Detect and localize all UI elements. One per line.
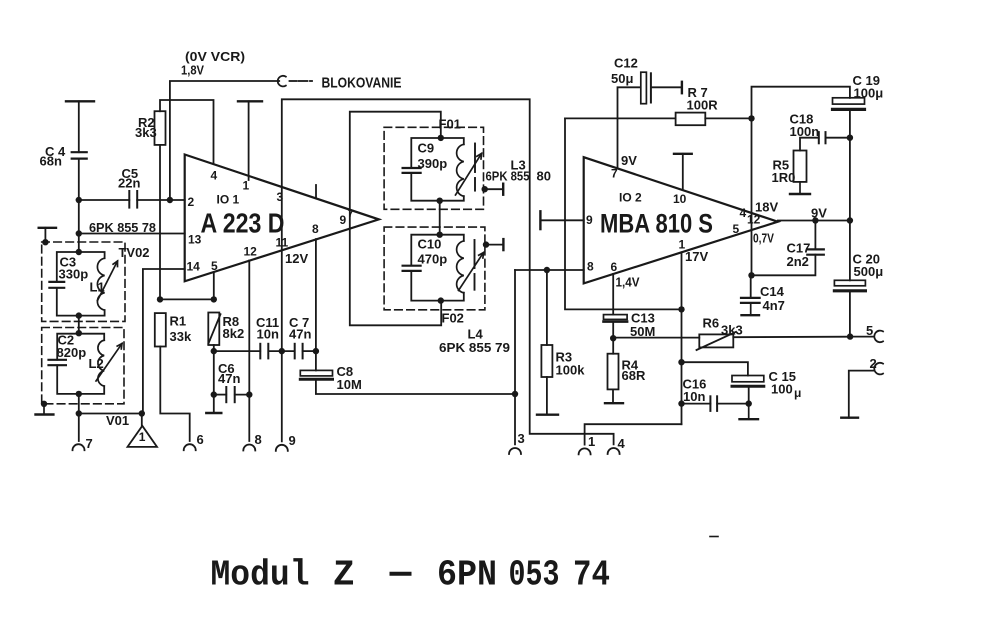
- capacitor C4: [72, 152, 87, 158]
- wire R1/R8 link: [160, 298, 214, 300]
- node bottom rail C20: [847, 333, 853, 339]
- label 0,7V: [753, 231, 774, 246]
- svg-text:1: 1: [588, 434, 595, 449]
- terminal T-bar under R5: [790, 182, 810, 194]
- label 1: [588, 434, 595, 449]
- wire F01-F02 link: [439, 201, 441, 235]
- svg-text:V01: V01: [106, 413, 129, 428]
- wire C15 bottom: [748, 387, 750, 403]
- svg-text:R6: R6: [703, 316, 720, 331]
- label C10: [418, 237, 448, 267]
- svg-text:68n: 68n: [40, 154, 62, 169]
- label 8: [255, 432, 262, 447]
- node L4 tap: [483, 241, 489, 247]
- node C7 right / C8 top: [313, 348, 319, 354]
- svg-text:10: 10: [673, 192, 687, 206]
- node C15/C16 top: [678, 359, 684, 365]
- capacitor C17: [807, 249, 824, 254]
- svg-text:22n: 22n: [118, 176, 140, 191]
- svg-text:50μ: 50μ: [611, 71, 633, 86]
- wire pin 3 and top rail: [282, 99, 614, 444]
- label 1,8V: [181, 63, 204, 78]
- svg-text:47n: 47n: [289, 327, 311, 342]
- label 3: [518, 431, 525, 446]
- label R2: [135, 115, 157, 140]
- node V01 row left: [76, 410, 82, 416]
- label L3: [511, 158, 526, 173]
- terminal 4: [608, 448, 620, 454]
- node 9V C17: [812, 217, 818, 223]
- label F01: [439, 117, 461, 132]
- terminal T-bar under C14: [742, 303, 760, 315]
- capacitor C2: [49, 360, 66, 365]
- node C10 top: [437, 232, 443, 238]
- pin 13 label: [188, 233, 202, 247]
- svg-text:9: 9: [289, 433, 296, 448]
- node dashed corner bottom-left: [41, 401, 47, 407]
- node C18 junction: [847, 135, 853, 141]
- label 1 in V01: [139, 430, 146, 444]
- core bar L3: [474, 144, 476, 191]
- terminal T-bar bottom-left: [36, 404, 54, 415]
- wire to V01: [79, 413, 142, 415]
- svg-text:100n: 100n: [790, 124, 820, 139]
- label R4: [622, 358, 646, 384]
- label 7: [86, 436, 93, 451]
- pin 1 label: [243, 179, 250, 193]
- label 18V: [755, 200, 778, 215]
- svg-text:1: 1: [139, 430, 146, 444]
- pin 11 label: [276, 236, 289, 250]
- wire C6 row: [214, 394, 250, 396]
- tank loop 2 outline: [57, 334, 104, 394]
- node C7 left: [279, 348, 285, 354]
- svg-text:C12: C12: [614, 56, 638, 71]
- capacitor C3: [49, 282, 64, 288]
- label R8: [223, 314, 245, 341]
- wire terminal 5: [850, 336, 873, 338]
- terminal 2: [874, 363, 883, 375]
- inductor L3: [457, 144, 464, 196]
- svg-text:6PK 855 79: 6PK 855 79: [439, 340, 510, 355]
- node C11 left: [211, 348, 217, 354]
- node on dashed corner: [42, 239, 48, 245]
- wire terminal 2: [849, 371, 874, 418]
- terminal T-bar top-left of TV02: [39, 228, 56, 242]
- svg-text:3k3: 3k3: [721, 323, 743, 338]
- capacitor C20: [834, 280, 865, 291]
- svg-text:2: 2: [870, 356, 877, 371]
- label C5: [118, 166, 140, 191]
- svg-text:470p: 470p: [418, 252, 448, 267]
- label MBA 810 S: [600, 209, 713, 239]
- svg-text:Modul: Modul: [211, 555, 310, 596]
- svg-text:BLOKOVANIE: BLOKOVANIE: [322, 75, 402, 92]
- wire between tanks: [78, 316, 80, 334]
- label IO 2: [619, 191, 642, 205]
- capacitor C15: [732, 376, 764, 387]
- terminal 7: [73, 444, 85, 450]
- tank loop C9/L3: [411, 138, 464, 201]
- svg-text:R1: R1: [170, 314, 187, 329]
- wire C8 bottom: [316, 381, 515, 394]
- svg-text:3k3: 3k3: [135, 125, 157, 140]
- svg-text:IO 1: IO 1: [217, 193, 240, 207]
- node C8 wire junction: [512, 391, 518, 397]
- label C2: [57, 333, 87, 361]
- svg-text:8: 8: [587, 260, 594, 274]
- label 17V: [685, 249, 708, 264]
- pin 7 label: [348, 208, 354, 220]
- speck above caption: [710, 536, 718, 538]
- label C20: [853, 252, 884, 280]
- label C15: [769, 369, 802, 400]
- svg-text:5: 5: [866, 323, 873, 338]
- node junction C5/C4: [76, 197, 82, 203]
- wire pin 6 / C13: [612, 274, 614, 354]
- label 6PK 855 78: [89, 220, 156, 235]
- pin 2 label: [188, 195, 195, 209]
- svg-text:1,8V: 1,8V: [181, 63, 204, 78]
- pin 6 label: [611, 260, 618, 274]
- terminal T-bar under R8: [206, 412, 221, 414]
- terminal 6: [184, 444, 196, 450]
- arrow variable L1: [98, 261, 118, 301]
- label (0V VCR): [185, 49, 245, 64]
- label C19: [853, 73, 884, 101]
- resistor R3: [541, 345, 552, 377]
- label R5: [772, 158, 796, 186]
- wire 9V row: [778, 220, 850, 222]
- node 9V C19 column: [847, 217, 853, 223]
- svg-text:100μ: 100μ: [854, 86, 884, 101]
- label BLOKOVANIE: [322, 75, 402, 92]
- svg-text:500μ: 500μ: [854, 264, 884, 279]
- svg-text:F01: F01: [439, 117, 461, 132]
- svg-text:8k2: 8k2: [223, 326, 245, 341]
- wire C11 row: [214, 350, 316, 352]
- label C9: [418, 141, 448, 172]
- capacitor C19: [833, 98, 865, 110]
- label C14: [760, 284, 785, 313]
- node C6 right: [246, 391, 252, 397]
- terminal T-bar ground right: [841, 417, 858, 419]
- node C13/R4/R6: [610, 335, 616, 341]
- terminal T-bar pin 9: [540, 211, 583, 229]
- svg-text:10M: 10M: [337, 377, 362, 392]
- label C17: [787, 241, 811, 270]
- svg-text:5: 5: [733, 222, 740, 236]
- node junction pin2/1.8V: [167, 197, 173, 203]
- terminal 5: [874, 331, 883, 343]
- resistor R6: [699, 334, 733, 347]
- wire C14 lead: [750, 275, 752, 298]
- label L2: [89, 356, 104, 371]
- stub above triangle: [315, 185, 317, 198]
- wire terminal 1 riser: [585, 424, 682, 444]
- resistor R3 leads: [546, 270, 548, 414]
- svg-text:053: 053: [509, 555, 560, 596]
- wire terminal 7: [78, 414, 80, 442]
- capacitor C6: [226, 387, 234, 402]
- svg-text:C10: C10: [418, 237, 442, 252]
- wire T2 column (pin 12): [248, 260, 250, 441]
- wire R1 to terminal 6: [160, 347, 189, 442]
- label 6: [197, 432, 204, 447]
- svg-text:4: 4: [618, 436, 626, 451]
- pin 8 label: [587, 260, 594, 274]
- caption Modul Z - 6PN 053 74: [211, 555, 611, 596]
- label C3: [59, 255, 89, 282]
- label R7: [687, 85, 719, 113]
- resistor R8: [208, 313, 219, 346]
- svg-text:A 223 D: A 223 D: [201, 208, 285, 239]
- wire tank2 to ground row: [78, 394, 80, 414]
- node C16 left: [678, 400, 684, 406]
- svg-text:6PK 855 78: 6PK 855 78: [89, 220, 156, 235]
- dashed box TV02 lower: [42, 328, 124, 404]
- capacitor C5: [129, 191, 137, 208]
- wire 6PK 855 78 net (pin 13): [79, 233, 185, 235]
- svg-text:330p: 330p: [59, 267, 89, 282]
- svg-text:6: 6: [611, 260, 618, 274]
- label L1: [90, 280, 105, 295]
- svg-text:6: 6: [197, 432, 204, 447]
- pin 4 label: [211, 169, 218, 183]
- label C12: [611, 56, 638, 87]
- node C9 bottom: [437, 198, 443, 204]
- dashed box F02: [384, 227, 485, 310]
- resistor R2: [155, 111, 166, 145]
- pin 12 label: [747, 213, 761, 227]
- svg-text:9V: 9V: [811, 206, 827, 221]
- svg-text:18V: 18V: [755, 200, 778, 215]
- svg-text:6PK 855: 6PK 855: [486, 169, 530, 184]
- label L4: [468, 327, 484, 342]
- svg-text:(0V VCR): (0V VCR): [185, 49, 245, 64]
- terminal T-bar pin 1 top: [238, 101, 262, 180]
- slash R8: [208, 314, 220, 344]
- dashed box F01: [384, 127, 483, 209]
- terminal T-bar C12 right: [681, 82, 683, 93]
- label 2: [870, 356, 877, 371]
- svg-text:390p: 390p: [418, 156, 448, 171]
- svg-text:17V: 17V: [685, 249, 708, 264]
- wire L3 tap: [485, 188, 504, 190]
- svg-text:12: 12: [244, 245, 258, 259]
- wire R6 row: [616, 336, 851, 339]
- terminal T-bar under R3: [537, 414, 558, 416]
- pin 8 label: [312, 222, 319, 236]
- node pin1 column junction: [678, 306, 684, 312]
- terminal 8: [243, 445, 255, 451]
- svg-text:6PN: 6PN: [437, 555, 497, 596]
- node R7 right: [748, 115, 754, 121]
- svg-text:7: 7: [86, 436, 93, 451]
- svg-text:4: 4: [211, 169, 218, 183]
- wire C8 top lead: [315, 351, 317, 370]
- svg-text:L2: L2: [89, 356, 104, 371]
- pin 3 label: [277, 190, 284, 204]
- label 5: [866, 323, 873, 338]
- terminal T-bar under C15: [740, 404, 759, 420]
- label C16: [683, 377, 707, 405]
- terminal 9: [276, 445, 288, 451]
- wire C4 column down: [78, 159, 80, 252]
- arrow variable L2: [96, 344, 122, 382]
- capacitor C11: [260, 344, 268, 359]
- wire C5 left: [79, 199, 130, 201]
- svg-text:4n7: 4n7: [763, 298, 785, 313]
- label 9V pin7: [621, 153, 637, 168]
- node C16 right: [746, 400, 752, 406]
- wire pin 5: [213, 272, 215, 299]
- node C6 left: [211, 391, 217, 397]
- svg-text:3: 3: [518, 431, 525, 446]
- terminal T-bar above C4: [66, 101, 94, 152]
- label 6PK 855 79: [439, 340, 510, 355]
- terminal T-bar L4 tap: [502, 239, 504, 250]
- label 9: [289, 433, 296, 448]
- label F02: [442, 311, 464, 326]
- svg-text:13: 13: [188, 233, 202, 247]
- svg-text:0,7V: 0,7V: [753, 231, 774, 246]
- svg-text:9: 9: [340, 213, 347, 227]
- terminal T-bar under R4: [605, 389, 623, 403]
- label C11: [256, 315, 279, 342]
- svg-text:MBA 810 S: MBA 810 S: [600, 209, 713, 239]
- terminal 3: [509, 448, 521, 454]
- svg-text:2: 2: [188, 195, 195, 209]
- wire pin8 row to MBA: [515, 269, 584, 271]
- svg-text:74: 74: [573, 555, 610, 596]
- svg-text:9: 9: [586, 213, 593, 227]
- wire R2 top to pin 4: [160, 100, 214, 164]
- wire pin 7 / C12: [618, 87, 682, 168]
- node tank1 bottom: [76, 312, 82, 318]
- capacitor C14: [741, 298, 760, 303]
- node tank1 top: [76, 249, 82, 255]
- node R1 top: [157, 296, 163, 302]
- terminal T-bar L3 tap: [502, 184, 504, 195]
- varicap V01 triangle: [128, 414, 158, 447]
- label R6: [703, 316, 743, 338]
- tank loop 1 outline: [57, 252, 105, 316]
- svg-text:100k: 100k: [556, 363, 586, 378]
- label 9V: [811, 206, 827, 221]
- capacitor C13: [604, 315, 628, 322]
- node tank2 top: [76, 330, 82, 336]
- slash R6: [697, 332, 737, 350]
- node tank2 bottom: [76, 391, 82, 397]
- label TV02: [119, 245, 150, 260]
- node C10 bottom: [438, 297, 444, 303]
- wire feedback loop: [350, 112, 441, 326]
- pin 1 label: [679, 238, 686, 252]
- svg-text:8: 8: [255, 432, 262, 447]
- node V01: [139, 410, 145, 416]
- wire terminal 3 column: [514, 270, 516, 444]
- terminal 1: [579, 448, 591, 454]
- capacitor C18: [819, 132, 826, 143]
- svg-text:4: 4: [740, 206, 747, 220]
- label 6PK 855 80: [486, 169, 551, 184]
- resistor R4: [608, 354, 619, 390]
- pin 5 label: [733, 222, 740, 236]
- svg-text:33k: 33k: [170, 329, 192, 344]
- svg-text:14: 14: [187, 260, 201, 274]
- capacitor C7: [295, 344, 303, 359]
- svg-text:5: 5: [211, 259, 218, 273]
- wire apex crossing (R7 node down): [751, 118, 753, 275]
- label C6: [218, 361, 240, 386]
- label 4: [618, 436, 626, 451]
- pin 7 label: [611, 167, 618, 181]
- dashed box TV02 upper: [42, 242, 125, 321]
- svg-text:68R: 68R: [622, 368, 646, 383]
- svg-text:10n: 10n: [683, 389, 705, 404]
- wire 1.8V feed: [170, 81, 279, 200]
- node R8 top: [211, 296, 217, 302]
- inductor L4: [457, 241, 464, 293]
- node junction 6PK wire: [76, 230, 82, 236]
- arrow variable L3: [456, 154, 482, 196]
- svg-text:C14: C14: [760, 284, 785, 299]
- pin 9 label: [340, 213, 347, 227]
- wire C17 top: [814, 221, 816, 250]
- pin 12 label: [244, 245, 258, 259]
- pin 10 label: [673, 192, 687, 206]
- svg-text:μ: μ: [794, 386, 801, 400]
- pin 4 label: [740, 206, 747, 220]
- svg-text:820p: 820p: [57, 345, 87, 360]
- label C8: [337, 364, 362, 392]
- terminal T-bar pin 10: [674, 154, 692, 190]
- capacitor C9: [403, 168, 421, 173]
- wire pin 14: [143, 269, 185, 414]
- wire C15 top: [682, 362, 748, 375]
- svg-text:F02: F02: [442, 311, 464, 326]
- op-amp IO1 A 223 D triangle: [185, 155, 379, 282]
- svg-text:100R: 100R: [687, 98, 719, 113]
- wire C19 bottom column: [849, 111, 851, 280]
- op-amp IO2 MBA 810 S triangle: [584, 157, 778, 283]
- label C4: [40, 144, 67, 169]
- wire R2 bottom column: [159, 145, 161, 300]
- node C14 top: [748, 272, 754, 278]
- svg-text:80: 80: [537, 169, 551, 184]
- label C18: [790, 112, 820, 140]
- wire C18 row: [800, 138, 850, 151]
- label R1: [170, 314, 192, 345]
- wire pin 8 stub: [315, 239, 317, 351]
- node F01 top: [438, 135, 444, 141]
- label C13: [630, 311, 655, 340]
- wire pin 1 column: [681, 252, 683, 424]
- node L3 tap: [482, 186, 488, 192]
- inductor L1: [97, 258, 104, 310]
- svg-text:2n2: 2n2: [787, 254, 809, 269]
- svg-text:1R0: 1R0: [772, 170, 796, 185]
- svg-text:12: 12: [747, 213, 761, 227]
- capacitor C16: [710, 396, 717, 411]
- resistor R5: [794, 151, 807, 182]
- svg-text:IO 2: IO 2: [619, 191, 642, 205]
- wire MBA left column: [565, 118, 682, 309]
- wire R8 down: [213, 345, 215, 413]
- wire C16 row: [682, 403, 749, 405]
- wire C17 bottom: [752, 255, 816, 276]
